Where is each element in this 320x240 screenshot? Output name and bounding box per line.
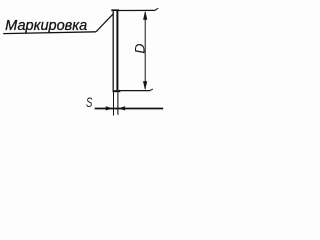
svg-text:D: D [131,43,147,53]
svg-text:S: S [86,94,92,110]
svg-text:Маркировка: Маркировка [5,18,87,34]
